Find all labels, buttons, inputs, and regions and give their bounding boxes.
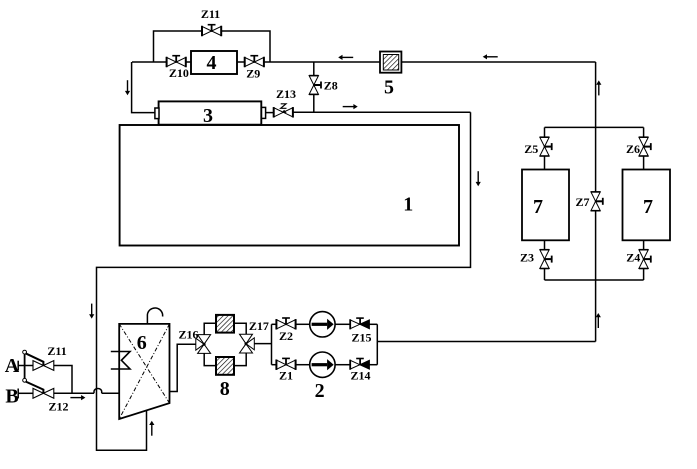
svg-text:Z17: Z17 [249, 319, 269, 333]
svg-text:Z5: Z5 [524, 142, 538, 156]
svg-text:Z10: Z10 [169, 66, 189, 80]
svg-text:Z2: Z2 [279, 329, 293, 343]
svg-text:3: 3 [203, 105, 213, 127]
svg-text:5: 5 [384, 76, 394, 98]
svg-text:8: 8 [220, 378, 230, 400]
svg-text:Z3: Z3 [520, 251, 534, 265]
svg-text:Z15: Z15 [351, 330, 371, 344]
svg-text:4: 4 [207, 52, 217, 74]
svg-text:1: 1 [403, 194, 413, 216]
svg-text:Z11: Z11 [201, 7, 220, 21]
svg-text:Z13: Z13 [276, 87, 296, 101]
svg-text:B: B [5, 386, 18, 408]
svg-text:Z6: Z6 [626, 142, 640, 156]
svg-text:Z8: Z8 [324, 79, 338, 93]
svg-text:7: 7 [643, 196, 653, 218]
svg-text:2: 2 [315, 380, 325, 402]
svg-text:Z14: Z14 [350, 369, 370, 383]
svg-text:Z11: Z11 [47, 344, 66, 358]
svg-text:Z4: Z4 [626, 251, 640, 265]
svg-text:Z9: Z9 [246, 67, 260, 81]
svg-text:Z16: Z16 [178, 327, 198, 341]
svg-text:Z7: Z7 [575, 195, 589, 209]
svg-text:7: 7 [533, 196, 543, 218]
svg-text:Z1: Z1 [279, 369, 293, 383]
svg-text:A: A [5, 355, 20, 377]
svg-text:Z12: Z12 [48, 400, 68, 414]
svg-text:6: 6 [137, 332, 147, 354]
